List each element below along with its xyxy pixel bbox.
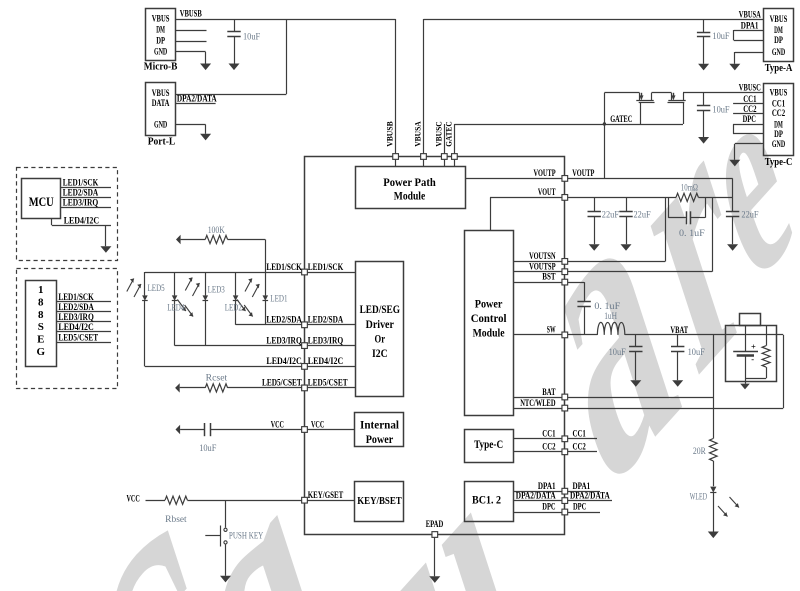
svg-text:DPC: DPC xyxy=(542,502,555,512)
svg-text:LED4/I2C: LED4/I2C xyxy=(64,215,99,225)
svg-text:MCU: MCU xyxy=(29,195,54,209)
svg-text:Type-C: Type-C xyxy=(474,439,503,451)
svg-text:CC1: CC1 xyxy=(542,429,556,439)
svg-text:LED1/SCK: LED1/SCK xyxy=(308,262,343,272)
svg-text:CC2: CC2 xyxy=(743,104,757,114)
svg-text:10uF: 10uF xyxy=(609,347,626,357)
svg-text:20R: 20R xyxy=(693,446,706,456)
svg-text:+: + xyxy=(751,341,756,351)
svg-text:8: 8 xyxy=(38,309,44,321)
svg-text:DPA1: DPA1 xyxy=(741,20,759,30)
svg-text:LED5: LED5 xyxy=(148,283,166,293)
svg-text:Type-C: Type-C xyxy=(765,157,793,168)
svg-text:WLED: WLED xyxy=(690,492,708,502)
svg-text:GND: GND xyxy=(772,139,786,149)
svg-text:LED2: LED2 xyxy=(225,302,242,312)
svg-text:LED5/CSET: LED5/CSET xyxy=(262,378,302,388)
svg-text:100K: 100K xyxy=(208,225,226,235)
svg-text:LED4/I2C: LED4/I2C xyxy=(308,356,343,366)
svg-text:LED5/CSET: LED5/CSET xyxy=(58,332,98,342)
svg-text:VOUTP: VOUTP xyxy=(534,168,556,178)
svg-text:10uF: 10uF xyxy=(688,347,705,357)
svg-text:u: u xyxy=(342,340,565,591)
svg-text:LED1/SCK: LED1/SCK xyxy=(266,262,301,272)
svg-text:LED4/I2C: LED4/I2C xyxy=(266,356,301,366)
svg-text:I2C: I2C xyxy=(372,348,388,360)
svg-text:VBAT: VBAT xyxy=(670,325,688,335)
svg-text:VBUSA: VBUSA xyxy=(413,121,423,147)
svg-text:GATEC: GATEC xyxy=(444,121,454,147)
svg-text:Micro-B: Micro-B xyxy=(144,62,178,73)
svg-text:VBUSB: VBUSB xyxy=(180,9,202,19)
svg-text:VBUS: VBUS xyxy=(152,13,170,23)
svg-text:VBUSC: VBUSC xyxy=(739,82,761,92)
svg-text:1: 1 xyxy=(38,284,44,296)
svg-text:S: S xyxy=(38,321,44,333)
svg-text:8: 8 xyxy=(38,296,44,308)
svg-text:10uF: 10uF xyxy=(712,31,729,41)
svg-text:LED3: LED3 xyxy=(208,285,226,295)
svg-text:Power: Power xyxy=(366,434,394,446)
svg-text:DATA: DATA xyxy=(152,98,170,108)
svg-text:DPC: DPC xyxy=(743,114,756,124)
svg-text:DPA2/DATA: DPA2/DATA xyxy=(516,490,556,500)
svg-text:LED1/SCK: LED1/SCK xyxy=(58,292,93,302)
svg-text:DP: DP xyxy=(774,129,783,139)
svg-text:GATEC: GATEC xyxy=(610,114,632,124)
svg-text:GND: GND xyxy=(154,119,168,129)
svg-text:Module: Module xyxy=(394,190,426,202)
svg-text:LED1: LED1 xyxy=(270,294,287,304)
svg-text:CC1: CC1 xyxy=(573,429,587,439)
svg-text:EPAD: EPAD xyxy=(426,519,444,529)
svg-text:Type-A: Type-A xyxy=(765,63,793,74)
svg-text:DPA2/DATA: DPA2/DATA xyxy=(177,93,217,103)
svg-text:Module: Module xyxy=(473,328,505,340)
svg-text:22uF: 22uF xyxy=(602,210,619,220)
svg-text:VBUS: VBUS xyxy=(770,14,788,24)
svg-text:LED3/IRQ: LED3/IRQ xyxy=(58,312,93,322)
svg-text:VBUS: VBUS xyxy=(770,88,788,98)
svg-text:Rcset: Rcset xyxy=(206,373,228,383)
svg-text:-: - xyxy=(751,354,754,364)
svg-text:Power Path: Power Path xyxy=(383,177,436,189)
svg-text:CC2: CC2 xyxy=(772,108,786,118)
svg-text:E: E xyxy=(37,334,44,346)
svg-text:KEY/BSET: KEY/BSET xyxy=(357,496,402,507)
svg-text:LED1/SCK: LED1/SCK xyxy=(63,178,98,188)
svg-text:LED4: LED4 xyxy=(167,302,185,312)
svg-text:LED4/I2C: LED4/I2C xyxy=(58,322,93,332)
svg-text:10uF: 10uF xyxy=(199,443,216,453)
svg-text:LED2/SDA: LED2/SDA xyxy=(266,315,302,325)
svg-text:DP: DP xyxy=(774,35,783,45)
svg-text:0. 1uF: 0. 1uF xyxy=(594,301,620,311)
svg-text:VOUTSP: VOUTSP xyxy=(529,262,556,272)
svg-text:LED3/IRQ: LED3/IRQ xyxy=(63,198,98,208)
svg-text:VBUS: VBUS xyxy=(152,88,170,98)
svg-text:LED5/CSET: LED5/CSET xyxy=(308,378,348,388)
svg-text:Power: Power xyxy=(475,299,503,311)
svg-text:VOUTP: VOUTP xyxy=(572,168,594,178)
svg-text:LED3/IRQ: LED3/IRQ xyxy=(266,335,301,345)
svg-text:BC1. 2: BC1. 2 xyxy=(472,495,501,507)
svg-text:KEY/GSET: KEY/GSET xyxy=(308,490,343,500)
svg-text:CC2: CC2 xyxy=(542,442,556,452)
svg-text:VOUT: VOUT xyxy=(538,187,556,197)
svg-text:CC1: CC1 xyxy=(772,99,786,109)
svg-text:22uF: 22uF xyxy=(634,210,651,220)
svg-text:VBUSC: VBUSC xyxy=(433,121,443,147)
svg-text:Port-L: Port-L xyxy=(148,136,176,147)
svg-text:DP: DP xyxy=(156,36,165,46)
svg-text:VCC: VCC xyxy=(127,494,140,504)
svg-text:LED/SEG: LED/SEG xyxy=(360,304,400,316)
svg-text:DM: DM xyxy=(774,25,783,35)
svg-text:CC2: CC2 xyxy=(573,442,587,452)
svg-text:PUSH KEY: PUSH KEY xyxy=(229,531,264,541)
svg-text:GND: GND xyxy=(772,47,786,57)
svg-text:Or: Or xyxy=(375,334,386,346)
svg-text:BST: BST xyxy=(542,272,555,282)
svg-text:VCC: VCC xyxy=(311,419,324,429)
svg-text:GND: GND xyxy=(154,46,168,56)
svg-text:Driver: Driver xyxy=(366,319,394,331)
svg-text:LED2/SDA: LED2/SDA xyxy=(308,315,344,325)
svg-text:VCC: VCC xyxy=(271,419,284,429)
svg-text:VBUSB: VBUSB xyxy=(385,121,395,147)
svg-text:SW: SW xyxy=(547,325,556,335)
svg-text:DPA2/DATA: DPA2/DATA xyxy=(570,490,610,500)
svg-text:LED3/IRQ: LED3/IRQ xyxy=(308,335,343,345)
svg-text:22uF: 22uF xyxy=(741,210,758,220)
svg-text:10uF: 10uF xyxy=(243,32,260,42)
svg-text:DM: DM xyxy=(156,25,165,35)
svg-text:10mΩ: 10mΩ xyxy=(681,183,698,193)
svg-text:LED2/SDA: LED2/SDA xyxy=(63,188,99,198)
svg-text:DM: DM xyxy=(774,119,783,129)
svg-text:CC1: CC1 xyxy=(743,94,757,104)
svg-text:NTC/WLED: NTC/WLED xyxy=(520,398,556,408)
svg-text:0. 1uF: 0. 1uF xyxy=(679,228,705,238)
svg-text:10uF: 10uF xyxy=(712,104,729,114)
svg-text:G: G xyxy=(37,346,46,358)
svg-text:Internal: Internal xyxy=(360,420,399,432)
svg-text:Control: Control xyxy=(471,313,507,325)
svg-text:VOUTSN: VOUTSN xyxy=(529,251,556,261)
svg-text:Rbset: Rbset xyxy=(165,514,187,524)
svg-text:1uH: 1uH xyxy=(604,311,617,321)
svg-text:LED2/SDA: LED2/SDA xyxy=(58,302,94,312)
svg-text:BAT: BAT xyxy=(542,387,555,397)
svg-text:VBUSA: VBUSA xyxy=(739,9,761,19)
svg-text:DPC: DPC xyxy=(573,502,586,512)
